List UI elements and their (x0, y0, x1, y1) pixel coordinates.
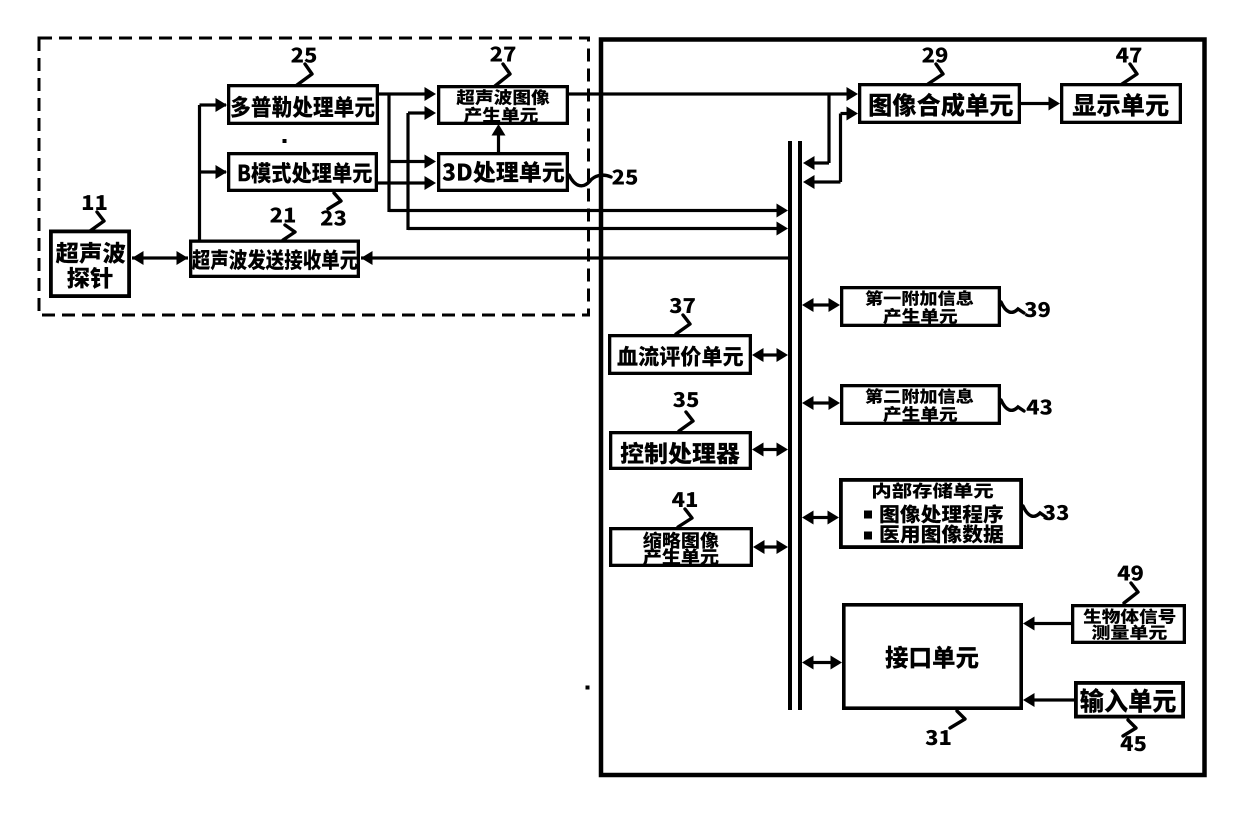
solid frame: apparatus main body boundary (601, 40, 1205, 776)
label 37 for blood flow evaluation unit (670, 298, 695, 313)
label 41 for thumbnail unit (672, 492, 697, 507)
box 33: internal storage unit 内部存储单元 with stored items (841, 480, 1021, 547)
wire: bus to interface unit (bidirectional) (813, 661, 831, 664)
label 43 for second additional info unit (1027, 399, 1052, 414)
label 35 for control processor (673, 392, 698, 407)
wire: bus to image synthesis second input (814, 180, 841, 183)
bullet for image processing program item (864, 511, 872, 519)
box 27: ultrasonic image generation unit 超声波图像产生单元 (439, 87, 568, 124)
box 23: B-mode processing unit B模式处理单元 (229, 154, 377, 191)
label 25 for doppler unit (291, 47, 316, 62)
wire: V2 branch to image generation unit second input (408, 111, 425, 114)
bullet for medical image data item (864, 532, 872, 540)
label 45 for input unit (1121, 736, 1146, 751)
box 25: doppler processing unit 多普勒处理单元 (229, 86, 378, 124)
box 35: control processor 控制处理器 (611, 433, 751, 469)
label 31 for interface unit (926, 730, 951, 745)
box 39: first additional info generation unit 第一附加信息产生单元 (842, 288, 1000, 326)
box 37: blood flow evaluation unit 血流评价单元 (610, 336, 751, 374)
wire: bus to tx/rx unit (361, 256, 790, 259)
wire: V1 branch to 3D processing unit top input (389, 160, 425, 163)
box 49: biosignal measurement unit 生物体信号测量单元 (1073, 606, 1185, 643)
wire: bus to first additional info unit (bidirectional) (813, 303, 829, 306)
bus right line (798, 141, 802, 710)
wire: V1 branch to bus (389, 209, 777, 212)
wire: biosignal measurement unit to interface unit (1034, 622, 1071, 625)
box 21: ultrasonic transmit/receive unit 超声波发送接收单元 (191, 241, 359, 276)
label 21 for tx/rx unit (270, 207, 295, 222)
wire: thumbnail unit to bus (bidirectional) (764, 545, 777, 548)
label 27 for image generation unit (490, 46, 515, 61)
label 29 for image synthesis unit (922, 47, 947, 62)
box 43: second additional info generation unit 第二附加信息产生单元 (842, 386, 1000, 424)
wire: doppler fanout vertical V1 (387, 94, 390, 212)
box 29: image synthesis unit 图像合成单元 (860, 85, 1020, 123)
label 25 for 3D processing unit (612, 169, 637, 184)
wire: b-mode fanout vertical V2 (406, 113, 409, 230)
stray scan dot near b-mode box (283, 139, 287, 143)
wire: blood flow evaluation unit to bus (bidirectional) (763, 353, 777, 356)
dashed frame: probe-side sub-system boundary (39, 38, 589, 315)
stray scan dot left of bus bottom (586, 686, 590, 690)
label 47 for display unit (1116, 48, 1141, 63)
label 23 for b-mode unit (321, 210, 346, 225)
box 41: thumbnail image generation unit 缩略图像产生单元 (611, 529, 752, 566)
box 31: interface unit 接口单元 (844, 605, 1021, 708)
wire: control processor to bus (bidirectional) (763, 448, 777, 451)
wire: image generation output to image synthesis unit (569, 92, 847, 95)
wire: image gen output branch down to bus (827, 94, 830, 163)
box 25b: 3D processing unit 3D处理单元 (439, 154, 568, 191)
box 11: ultrasonic probe 超声波探针 (51, 231, 129, 296)
wire: probe to tx/rx unit (bidirectional) (132, 256, 188, 259)
bus left line (788, 141, 792, 710)
label 33 for internal storage unit (1043, 505, 1068, 520)
box 47: display unit 显示单元 (1062, 85, 1181, 123)
wire: bus to second additional info unit (bidirectional) (813, 401, 829, 404)
label 11 for probe (83, 195, 107, 210)
wire: doppler output to ultrasonic image generation unit (379, 92, 425, 95)
wire: bus to internal storage unit (bidirectional) (813, 516, 828, 519)
wire: b-mode output to 3D processing unit bottom input (378, 181, 425, 184)
wire: input unit to interface unit (1034, 698, 1074, 701)
label 39 for first additional info unit (1025, 302, 1050, 317)
label 49 for biosignal unit (1118, 565, 1143, 580)
wire: V2 branch to bus (408, 227, 777, 230)
wire: image synthesis unit to display unit (1021, 102, 1049, 105)
wire: tx/rx unit up to doppler and b-mode inputs (198, 105, 201, 240)
wire: 3D processing unit up to image generation unit (497, 130, 500, 152)
box 45: input unit 输入单元 (1076, 683, 1183, 717)
